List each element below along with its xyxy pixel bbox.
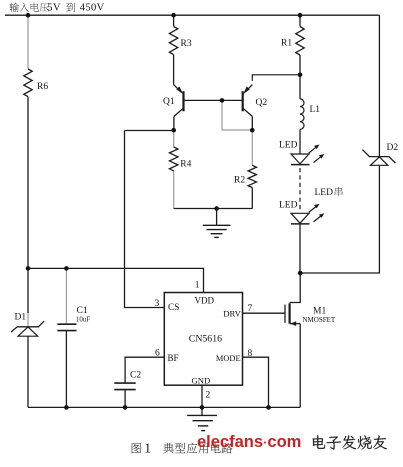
svg-text:D2: D2 <box>387 143 399 153</box>
junction node 15 <box>266 405 271 410</box>
wire: L1 top lead <box>299 75 301 99</box>
wire: C2 bottom lead <box>124 390 126 408</box>
wire: bottom ground rail <box>28 406 300 408</box>
wire: BF to C2 <box>125 357 164 383</box>
wire: D1 anode to bottom rail <box>27 336 29 407</box>
zener diode D1 <box>11 313 44 337</box>
MOSFET M1 <box>285 303 336 326</box>
wire: LED2 to drain node <box>299 224 301 273</box>
junction node 5 <box>171 128 176 133</box>
wire: R1 branch top <box>299 15 301 26</box>
watermark 电子发烧友 <box>313 435 387 449</box>
wire: VDD rail from left column to pin 1 <box>28 268 204 292</box>
junction node 13 <box>123 405 128 410</box>
transistor Q2 <box>243 85 268 117</box>
wire: R4 bottom lead <box>173 171 175 209</box>
resistor R1 <box>281 27 304 55</box>
wire: LED string dashed <box>299 168 301 210</box>
wire: R4 top lead (gray) <box>173 131 175 148</box>
zener diode D2 <box>362 143 398 165</box>
wire: CS branch vertical <box>125 131 165 308</box>
svg-text:R4: R4 <box>180 160 191 170</box>
input voltage label 输入电压5V 到 450V <box>10 3 105 14</box>
svg-text:DRV: DRV <box>223 308 241 318</box>
svg-text:L1: L1 <box>310 105 321 115</box>
svg-text:8: 8 <box>248 349 253 359</box>
svg-text:LED: LED <box>279 141 298 151</box>
resistor R4 <box>170 147 192 171</box>
wire: node to Q2 emitter <box>252 75 300 81</box>
LED D-LED2 <box>279 201 324 224</box>
wire: Q2 collector down to node <box>251 116 253 130</box>
svg-text:Q1: Q1 <box>163 97 175 107</box>
svg-text:450V: 450V <box>80 3 105 14</box>
wire: ground rail under R4 R2 <box>174 208 253 210</box>
svg-text:LED: LED <box>315 188 334 198</box>
svg-text:3: 3 <box>155 299 160 309</box>
svg-text:elecfans·com: elecfans·com <box>197 433 301 451</box>
wire: base link (gray) from base node to Q2 collector node <box>222 100 252 130</box>
wire: R2 top lead (gray) <box>251 131 253 166</box>
junction node 7 <box>298 73 303 78</box>
svg-text:C1: C1 <box>77 306 88 316</box>
wire: GND pin 2 down <box>201 385 203 407</box>
LED string label LED串 <box>315 187 343 198</box>
wire: rail below Q1 to CS branch <box>125 130 174 132</box>
wire: left column R6 branch <box>27 15 29 69</box>
wire: R3 to Q1 emitter <box>173 55 175 85</box>
wire: DRV to gate <box>243 312 286 314</box>
junction node 11 <box>298 271 303 276</box>
junction node 10 <box>64 266 69 271</box>
svg-text:VDD: VDD <box>195 295 215 305</box>
junction node 9 <box>26 266 31 271</box>
svg-text:MODE: MODE <box>216 354 241 363</box>
junction node 1 <box>26 13 31 18</box>
svg-text:D1: D1 <box>15 313 27 323</box>
wire: top supply rail <box>5 14 379 16</box>
svg-text:1: 1 <box>144 441 151 456</box>
junction node 6 <box>250 128 255 133</box>
inductor L1 <box>300 99 320 129</box>
caption 图1 典型应用电路 <box>132 441 233 456</box>
junction node 8 <box>214 206 219 211</box>
svg-text:10uF: 10uF <box>76 317 90 324</box>
wire: Q1 collector down to rail <box>173 116 175 130</box>
svg-text:R6: R6 <box>37 82 48 92</box>
junction node 14 <box>200 405 205 410</box>
wire: drain node to M1 <box>290 273 301 303</box>
junction node 4 <box>220 98 225 103</box>
svg-text:6: 6 <box>155 349 160 359</box>
wire: R2 bottom lead <box>251 188 253 209</box>
svg-text:7: 7 <box>248 304 253 314</box>
resistor R6 <box>24 69 49 97</box>
junction node 2 <box>171 13 176 18</box>
svg-text:Q2: Q2 <box>256 98 268 108</box>
capacitor C1 <box>57 268 90 407</box>
wire: L1 to LED1 <box>299 129 301 154</box>
svg-text:LED: LED <box>279 201 298 211</box>
resistor R2 <box>234 165 257 187</box>
svg-text:R3: R3 <box>181 39 192 49</box>
transistor Q1 <box>163 85 184 117</box>
svg-text:2: 2 <box>206 391 211 401</box>
svg-text:NMOSFET: NMOSFET <box>303 316 336 324</box>
junction node 12 <box>64 405 69 410</box>
LED D-LED1 <box>279 141 324 165</box>
wire: D2 anode down and left to M1 drain node <box>300 165 379 273</box>
svg-text:CS: CS <box>168 303 179 313</box>
wire: M1 source to bottom rail <box>299 324 301 408</box>
svg-text:BF: BF <box>168 353 179 363</box>
svg-text:CN5616: CN5616 <box>189 333 222 344</box>
capacitor C2 <box>114 371 141 390</box>
svg-text:GND: GND <box>192 375 211 385</box>
wire: base rail Q1-Q2 <box>184 99 243 101</box>
svg-text:R1: R1 <box>281 39 292 49</box>
svg-text:R2: R2 <box>234 176 245 186</box>
wire: MODE down to bottom rail <box>243 357 269 407</box>
wire: R3 branch top <box>173 15 175 26</box>
junction node 3 <box>298 13 303 18</box>
svg-text:1: 1 <box>195 281 200 291</box>
svg-text:5V: 5V <box>47 3 61 14</box>
wire: R1 to node below <box>299 55 301 75</box>
wire: right column to D2 <box>378 15 380 156</box>
svg-text:C2: C2 <box>130 371 141 381</box>
ground under R4/R2 rail <box>203 209 231 238</box>
IC U1 CN5616 <box>164 293 242 386</box>
ground under GND pin <box>187 407 217 430</box>
resistor R3 <box>169 26 191 54</box>
